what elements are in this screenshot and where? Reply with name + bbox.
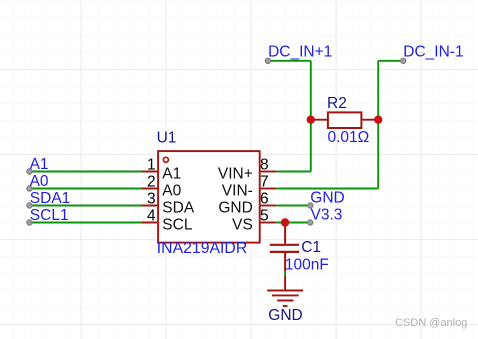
value 100nF — [285, 256, 329, 273]
svg-text:V3.3: V3.3 — [311, 207, 343, 224]
pin number 6 — [260, 190, 269, 207]
net label A1 — [30, 156, 49, 173]
svg-text:U1: U1 — [157, 130, 177, 147]
svg-text:VS: VS — [232, 217, 253, 234]
pin 1 stub — [141, 171, 157, 173]
svg-text:C1: C1 — [301, 239, 321, 256]
svg-text:0.01Ω: 0.01Ω — [328, 129, 370, 146]
terminal dot A1 — [27, 169, 32, 174]
terminal dot V3.3 — [308, 220, 313, 225]
wire DC_IN-1 horizontal — [378, 60, 403, 62]
pin number 2 — [147, 173, 156, 190]
svg-text:CSDN @anlog: CSDN @anlog — [395, 317, 467, 329]
svg-text:GND: GND — [268, 307, 302, 324]
svg-text:VIN+: VIN+ — [218, 166, 253, 183]
svg-text:8: 8 — [260, 156, 269, 173]
net label A0 — [30, 173, 49, 190]
net label V3.3 — [311, 207, 343, 224]
svg-text:4: 4 — [147, 207, 156, 224]
terminal dot A0 — [27, 186, 32, 191]
pin 3 stub — [141, 205, 157, 207]
terminal dot SDA1 — [27, 203, 32, 208]
svg-text:A0: A0 — [30, 173, 49, 190]
svg-text:VIN-: VIN- — [222, 183, 253, 200]
wire VIN- horizontal — [276, 188, 378, 190]
junction R2 left — [307, 116, 315, 124]
svg-text:7: 7 — [260, 173, 269, 190]
wire SCL1 net — [29, 222, 141, 224]
svg-text:GND: GND — [218, 200, 252, 217]
svg-text:INA219AIDR: INA219AIDR — [157, 240, 247, 257]
wire SDA1 net — [29, 205, 141, 207]
net label SDA1 — [30, 190, 71, 207]
wire V3.3 pin5 — [276, 222, 310, 224]
svg-text:A1: A1 — [30, 156, 49, 173]
pin 2 stub — [141, 188, 157, 190]
pin 7 stub — [261, 188, 277, 190]
wire VIN+ horizontal — [276, 171, 311, 173]
pin number 4 — [147, 207, 156, 224]
pin name VIN- — [222, 183, 253, 200]
junction R2 right — [374, 116, 382, 124]
wire DC_IN+1 horizontal — [268, 60, 311, 62]
svg-text:SCL: SCL — [162, 217, 193, 234]
wire C1 to ground — [284, 271, 286, 276]
designator C1 — [301, 239, 321, 256]
pin number 3 — [147, 190, 156, 207]
svg-text:2: 2 — [147, 173, 156, 190]
pin name A0 — [162, 183, 181, 200]
pin number 5 — [260, 207, 269, 224]
svg-text:R2: R2 — [327, 95, 347, 112]
pin name VS — [232, 217, 253, 234]
svg-text:3: 3 — [147, 190, 156, 207]
watermark — [395, 317, 467, 329]
terminal dot DC_IN+1 — [265, 58, 270, 63]
wire DC_IN-1 vertical — [377, 61, 379, 189]
ground symbol — [267, 276, 303, 306]
svg-text:A0: A0 — [162, 183, 181, 200]
pin 4 stub — [141, 222, 157, 224]
net label DC_IN+1 — [268, 44, 332, 61]
capacitor C1 — [270, 223, 299, 272]
svg-text:SCL1: SCL1 — [30, 207, 69, 224]
resistor R2 — [311, 112, 379, 128]
wire A0 net — [29, 188, 141, 190]
pin 8 stub — [261, 171, 277, 173]
designator R2 — [327, 95, 347, 112]
terminal dot DC_IN-1 — [401, 58, 406, 63]
designator U1 — [157, 130, 177, 147]
wire A1 net — [29, 171, 141, 173]
pin name GND — [218, 200, 252, 217]
value INA219AIDR — [157, 240, 247, 257]
svg-text:DC_IN+1: DC_IN+1 — [268, 44, 332, 61]
svg-text:DC_IN-1: DC_IN-1 — [403, 44, 463, 61]
pin 5 stub — [261, 222, 277, 224]
ground net label GND — [268, 307, 302, 324]
pin name SCL — [162, 217, 193, 234]
terminal dot GND — [308, 203, 313, 208]
svg-text:1: 1 — [147, 156, 156, 173]
svg-text:A1: A1 — [162, 166, 181, 183]
pin name VIN+ — [218, 166, 253, 183]
pin name A1 — [162, 166, 181, 183]
net label GND — [310, 190, 344, 207]
svg-text:SDA1: SDA1 — [30, 190, 71, 207]
pin number 8 — [260, 156, 269, 173]
svg-text:5: 5 — [260, 207, 269, 224]
wire GND pin6 — [276, 205, 310, 207]
wire DC_IN+1 vertical — [310, 61, 312, 172]
pin name SDA — [162, 200, 195, 217]
pin 6 stub — [261, 205, 277, 207]
svg-text:100nF: 100nF — [285, 256, 329, 273]
svg-text:6: 6 — [260, 190, 269, 207]
op-amp U1 body — [158, 151, 260, 243]
net label DC_IN-1 — [403, 44, 463, 61]
value 0.01ohm — [328, 129, 370, 146]
junction C1 top — [281, 218, 289, 226]
net label SCL1 — [30, 207, 69, 224]
pin number 1 — [147, 156, 156, 173]
terminal dot SCL1 — [27, 220, 32, 225]
svg-text:GND: GND — [310, 190, 344, 207]
svg-text:SDA: SDA — [162, 200, 195, 217]
pin number 7 — [260, 173, 269, 190]
